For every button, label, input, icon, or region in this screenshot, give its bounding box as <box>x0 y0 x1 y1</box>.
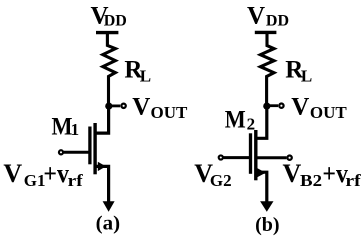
svg-text:DD: DD <box>104 13 127 30</box>
svg-text:+v: +v <box>322 159 348 188</box>
svg-text:G1: G1 <box>24 171 46 190</box>
svg-text:V: V <box>247 3 265 30</box>
svg-text:DD: DD <box>266 13 289 30</box>
svg-text:M: M <box>52 114 73 141</box>
svg-text:M: M <box>225 107 246 134</box>
svg-text:L: L <box>301 66 312 85</box>
svg-text:rf: rf <box>68 171 83 190</box>
svg-text:(a): (a) <box>96 212 121 234</box>
svg-text:V: V <box>283 159 302 188</box>
svg-text:V: V <box>132 94 150 121</box>
svg-text:rf: rf <box>345 171 361 190</box>
svg-text:1: 1 <box>71 120 80 139</box>
svg-text:V: V <box>3 159 22 188</box>
svg-text:B2: B2 <box>300 171 322 190</box>
svg-text:OUT: OUT <box>151 103 189 122</box>
svg-text:G2: G2 <box>210 171 232 190</box>
svg-text:L: L <box>140 67 151 86</box>
svg-text:+v: +v <box>43 159 69 188</box>
svg-text:OUT: OUT <box>310 103 348 122</box>
svg-text:2: 2 <box>247 114 256 133</box>
svg-text:V: V <box>291 94 309 121</box>
svg-text:(b): (b) <box>255 214 280 236</box>
